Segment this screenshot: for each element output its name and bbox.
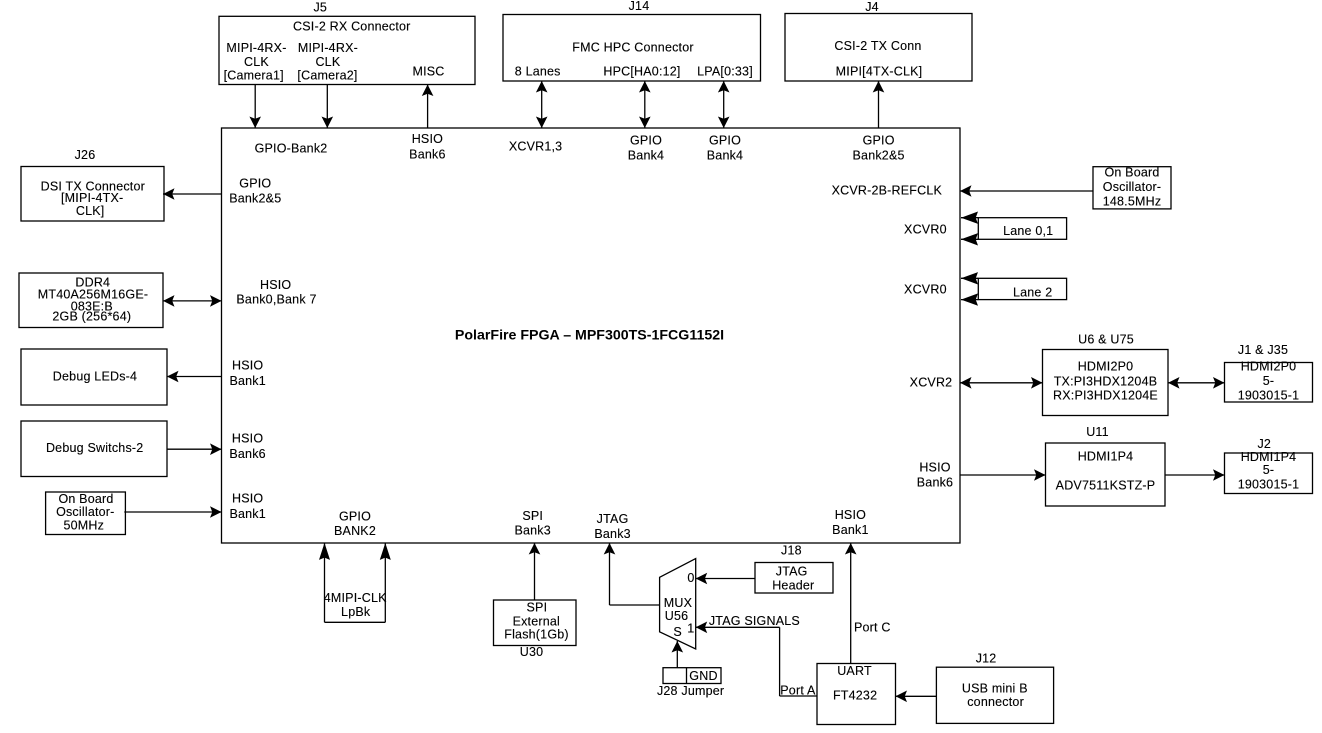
node Lane 0,1 box [978, 218, 1066, 240]
svg-text:Bank0,Bank 7: Bank0,Bank 7 [236, 293, 316, 307]
svg-text:Header: Header [772, 579, 814, 593]
svg-text:Oscillator-: Oscillator- [1103, 180, 1161, 194]
FPGA pin label JTAG Bank3 [594, 512, 630, 541]
svg-text:8 Lanes: 8 Lanes [515, 65, 561, 79]
svg-text:HSIO: HSIO [232, 492, 263, 506]
FPGA pin label HSIO Bank1 (LEDs) [229, 359, 265, 388]
wire FPGA GPIO Bank2&5 to J4 (up arrow) [873, 81, 885, 128]
wire Lane 0,1 upper to FPGA XCVR0 (left arrow) [961, 212, 978, 224]
svg-text:FT4232: FT4232 [833, 688, 877, 702]
Debug Switchs-2 box text [46, 441, 144, 455]
wire Lane 2 lower to FPGA XCVR0 (left arrow) [961, 293, 978, 305]
svg-text:XCVR0: XCVR0 [904, 223, 947, 237]
wire FPGA to J5 MISC (up arrow) [422, 85, 434, 129]
svg-text:Bank4: Bank4 [628, 149, 664, 163]
oscillator 50MHz box text [56, 492, 114, 533]
FPGA pin label HSIO Bank1 (osc) [229, 492, 265, 521]
UART box text [833, 664, 877, 703]
svg-text:Bank6: Bank6 [229, 447, 265, 461]
connector J12 reference label [976, 652, 997, 666]
component U30 reference label [520, 645, 544, 659]
svg-text:HDMI2P0: HDMI2P0 [1078, 360, 1134, 374]
U30 box text [504, 600, 569, 641]
connector J5 CSI-2 RX Connector box [219, 16, 475, 84]
svg-text:BANK2: BANK2 [334, 524, 376, 538]
FPGA pin label XCVR0 (lane 2) [904, 283, 947, 297]
jumper J28 reference label [657, 684, 724, 698]
J14 pin label LPA[0:33] [697, 65, 753, 79]
svg-text:[MIPI-4TX-: [MIPI-4TX- [61, 191, 123, 205]
svg-text:U11: U11 [1086, 425, 1109, 439]
svg-text:50MHz: 50MHz [64, 519, 105, 533]
svg-text:HSIO: HSIO [919, 461, 950, 475]
svg-text:U6 & U75: U6 & U75 [1078, 333, 1134, 347]
J14 box title text [572, 41, 694, 55]
FPGA pin label GPIO Bank2&5 (left) [229, 177, 281, 206]
svg-text:ADV7511KSTZ-P: ADV7511KSTZ-P [1056, 479, 1156, 493]
svg-text:On Board: On Board [1104, 166, 1159, 180]
J5 pin label MISC [412, 64, 444, 78]
svg-text:GPIO: GPIO [630, 134, 662, 148]
svg-text:J18: J18 [781, 544, 802, 558]
FPGA U-main block outline PolarFire [222, 128, 961, 543]
U56 select pin label S [673, 625, 682, 639]
Lane 0,1 box text [1003, 224, 1053, 238]
svg-text:U56: U56 [665, 609, 689, 623]
net label JTAG SIGNALS [709, 614, 800, 628]
wire FPGA to J26 (left arrow) [163, 188, 222, 200]
connector J18 JTAG Header box [755, 563, 833, 594]
connector J26 DSI TX Connector box [21, 167, 164, 222]
wire oscillator 148.5MHz to FPGA (left arrow) [960, 185, 1093, 197]
svg-text:JTAG: JTAG [776, 565, 808, 579]
wire oscillator 50MHz to FPGA (right arrow) [124, 506, 221, 518]
svg-text:Lane 2: Lane 2 [1013, 285, 1052, 299]
net label Port C [854, 621, 891, 635]
connector J12 USB mini B box [936, 667, 1053, 723]
J18 box text [772, 565, 814, 593]
svg-text:Bank2&5: Bank2&5 [853, 149, 905, 163]
svg-text:Debug LEDs-4: Debug LEDs-4 [53, 370, 137, 384]
svg-text:PolarFire FPGA – MPF300TS-1FCG: PolarFire FPGA – MPF300TS-1FCG1152I [455, 328, 724, 344]
svg-text:148.5MHz: 148.5MHz [1103, 195, 1162, 209]
connector J14 reference label [629, 0, 650, 13]
svg-text:0: 0 [687, 571, 694, 585]
connector J14 FMC HPC Connector box [503, 15, 761, 82]
U6/U75 box text [1053, 360, 1158, 403]
connector J2 HDMI1P4 box [1225, 453, 1313, 494]
J4 pin label MIPI[4TX-CLK] [836, 65, 923, 79]
component Debug Switchs-2 box [21, 421, 167, 477]
FPGA pin label GPIO-Bank2 [255, 142, 328, 156]
svg-text:USB mini B: USB mini B [962, 681, 1028, 695]
svg-text:LpBk: LpBk [341, 605, 371, 619]
FPGA pin label HSIO Bank6 (right) [917, 461, 953, 490]
FPGA pin label GPIO Bank2&5 (top right) [853, 134, 905, 163]
FPGA pin label HSIO Bank1 (bottom right) [832, 508, 868, 537]
component U11 reference label [1086, 425, 1109, 439]
svg-text:GPIO: GPIO [339, 510, 371, 524]
wire Lane 2 upper to FPGA XCVR0 (left arrow) [961, 272, 978, 284]
svg-text:On Board: On Board [58, 492, 113, 506]
node Lane 2 box [978, 278, 1066, 299]
svg-text:GND: GND [689, 669, 717, 683]
svg-text:S: S [673, 625, 682, 639]
connector J2 reference label [1257, 437, 1271, 451]
svg-text:HDMI2P0: HDMI2P0 [1241, 360, 1297, 374]
svg-text:J14: J14 [629, 0, 650, 13]
FPGA pin label SPI Bank3 [514, 509, 550, 538]
svg-text:UART: UART [837, 664, 872, 678]
svg-text:Bank4: Bank4 [707, 149, 743, 163]
FPGA pin label HSIO Bank6 (switches) [229, 432, 265, 461]
svg-text:XCVR0: XCVR0 [904, 283, 947, 297]
wire Debug Switchs to FPGA (right arrow) [167, 443, 222, 455]
svg-text:XCVR-2B-REFCLK: XCVR-2B-REFCLK [832, 184, 943, 198]
wire U56 MUX output to FPGA JTAG Bank3 (up arrow) [604, 543, 660, 605]
component U30 SPI External Flash box [494, 600, 577, 646]
wire J14 LPA to FPGA GPIO Bank4 (double arrow) [718, 81, 730, 128]
wire HDMI2P0 to J1/J35 (double arrow) [1168, 377, 1225, 389]
svg-text:XCVR2: XCVR2 [910, 375, 953, 389]
svg-text:Debug Switchs-2: Debug Switchs-2 [46, 441, 144, 455]
FPGA pin label XCVR2 [910, 375, 953, 389]
FPGA pin label GPIO BANK2 (bottom) [334, 510, 376, 539]
svg-text:GPIO: GPIO [239, 177, 271, 191]
svg-text:SPI: SPI [522, 509, 543, 523]
U56 input 1 pin label [687, 622, 694, 636]
oscillator 148.5MHz box [1093, 167, 1171, 209]
svg-text:XCVR1,3: XCVR1,3 [509, 140, 563, 154]
component UART FT4232 box [817, 664, 896, 725]
svg-text:RX:PI3HDX1204E: RX:PI3HDX1204E [1053, 389, 1158, 403]
svg-text:JTAG: JTAG [597, 512, 629, 526]
svg-text:5-: 5- [1263, 374, 1275, 388]
svg-text:Bank1: Bank1 [229, 507, 265, 521]
svg-text:Oscillator-: Oscillator- [56, 505, 114, 519]
J5 pin label MIPI-4RX-CLK [Camera1] [224, 41, 287, 82]
component U11 HDMI1P4 box [1046, 443, 1166, 506]
svg-text:MIPI-4RX-: MIPI-4RX- [298, 41, 358, 55]
svg-text:Bank3: Bank3 [594, 527, 630, 541]
svg-text:HDMI1P4: HDMI1P4 [1078, 450, 1134, 464]
4MIPI-CLK LpBk box text [324, 591, 387, 619]
connector J26 reference label [75, 148, 96, 162]
U56 input 0 pin label [687, 571, 694, 585]
jumper J28 two-cell box [663, 668, 721, 684]
net label Port A [780, 684, 816, 698]
svg-text:External: External [513, 614, 560, 628]
FPGA title label [455, 328, 724, 344]
FPGA pin label XCVR0 (lane 0,1) [904, 223, 947, 237]
svg-text:[Camera2]: [Camera2] [297, 68, 357, 82]
component U6 & U75 reference label [1078, 333, 1134, 347]
svg-text:1903015-1: 1903015-1 [1238, 388, 1300, 402]
svg-text:5-: 5- [1263, 463, 1275, 477]
oscillator 50MHz box [46, 492, 126, 535]
connector J1 & J35 reference label [1238, 343, 1288, 357]
svg-text:CLK: CLK [315, 55, 340, 69]
connector J5 reference label [313, 0, 327, 14]
connector J4 CSI-2 TX Conn box [785, 14, 972, 82]
wire JTAG SIGNALS from UART Port A to MUX input 1 (left arrow) [696, 622, 817, 697]
svg-text:GPIO: GPIO [709, 134, 741, 148]
svg-text:Port C: Port C [854, 621, 891, 635]
svg-text:J28 Jumper: J28 Jumper [657, 684, 724, 698]
svg-text:J1 & J35: J1 & J35 [1238, 343, 1288, 357]
svg-text:2GB (256*64): 2GB (256*64) [52, 309, 131, 323]
svg-text:MIPI[4TX-CLK]: MIPI[4TX-CLK] [836, 65, 923, 79]
wire HDMI1P4 to J2 (right arrow) [1165, 469, 1225, 481]
J14 pin label HPC[HA0:12] [603, 65, 680, 79]
svg-text:Bank3: Bank3 [514, 524, 550, 538]
wire J5 Camera2 to FPGA (down arrow) [322, 85, 334, 129]
svg-text:CLK: CLK [244, 55, 269, 69]
wire 4MIPI-CLK left edge to FPGA (up arrow) [319, 543, 330, 622]
svg-text:Lane 0,1: Lane 0,1 [1003, 224, 1053, 238]
svg-text:1: 1 [687, 622, 694, 636]
svg-text:J4: J4 [865, 0, 879, 14]
wire 4MIPI-CLK right edge to FPGA (up arrow) [380, 543, 391, 622]
svg-text:SPI: SPI [527, 600, 548, 614]
wire USB mini B to UART (left arrow) [896, 691, 937, 703]
svg-text:J26: J26 [75, 148, 96, 162]
svg-text:[Camera1]: [Camera1] [224, 68, 284, 82]
svg-text:Bank1: Bank1 [832, 523, 868, 537]
svg-text:Bank6: Bank6 [917, 476, 953, 490]
svg-text:TX:PI3HDX1204B: TX:PI3HDX1204B [1054, 375, 1158, 389]
svg-text:Bank2&5: Bank2&5 [229, 192, 281, 206]
wire J28 jumper to MUX select S (up arrow) [672, 641, 684, 668]
wire FPGA HSIO Bank6 to HDMI1P4 (right arrow) [960, 469, 1046, 481]
svg-text:MIPI-4RX-: MIPI-4RX- [226, 41, 286, 55]
component Debug LEDs-4 box [21, 349, 167, 405]
wire UART Port C to FPGA HSIO Bank1 (up arrow) [845, 543, 857, 664]
memory DDR4 box [19, 273, 163, 328]
J12 box text [962, 681, 1028, 709]
svg-text:Flash(1Gb): Flash(1Gb) [504, 628, 569, 642]
svg-text:GPIO: GPIO [863, 134, 895, 148]
svg-text:4MIPI-CLK: 4MIPI-CLK [324, 591, 387, 605]
svg-text:HPC[HA0:12]: HPC[HA0:12] [603, 65, 680, 79]
J1/J35 box text [1238, 360, 1300, 403]
svg-text:HDMI1P4: HDMI1P4 [1241, 450, 1297, 464]
wire DDR4 to FPGA (double arrow) [163, 295, 222, 307]
wire JTAG Header to MUX input 0 (left arrow) [696, 573, 755, 585]
svg-text:CSI-2 RX Connector: CSI-2 RX Connector [293, 20, 411, 34]
FPGA pin label GPIO Bank4 (LPA) [707, 134, 743, 163]
J2 box text [1238, 450, 1300, 492]
U11 box text [1056, 450, 1156, 493]
svg-text:1903015-1: 1903015-1 [1238, 478, 1300, 492]
wire FPGA to Debug LEDs (left arrow) [167, 371, 222, 383]
svg-text:CLK]: CLK] [76, 204, 105, 218]
U56 body text MUX U56 [664, 596, 693, 623]
svg-text:LPA[0:33]: LPA[0:33] [697, 65, 753, 79]
svg-text:J5: J5 [313, 0, 327, 14]
FPGA pin label XCVR-2B-REFCLK [832, 184, 943, 198]
J5 pin label MIPI-4RX-CLK [Camera2] [297, 41, 358, 82]
connector J1/J35 HDMI2P0 box [1225, 363, 1313, 403]
wire Lane 0,1 lower to FPGA XCVR0 (left arrow) [961, 233, 978, 245]
Debug LEDs-4 box text [53, 370, 137, 384]
component U6/U75 HDMI2P0 box [1043, 350, 1169, 416]
svg-text:HSIO: HSIO [412, 132, 443, 146]
J14 pin label 8 Lanes [515, 65, 561, 79]
connector J4 reference label [865, 0, 879, 14]
oscillator 148.5MHz box text [1103, 166, 1162, 209]
wire J5 Camera1 to FPGA (down arrow) [249, 85, 261, 129]
svg-text:HSIO: HSIO [835, 508, 866, 522]
multiplexer U56 MUX trapezoid [660, 559, 696, 649]
svg-text:JTAG SIGNALS: JTAG SIGNALS [709, 614, 800, 628]
svg-text:J12: J12 [976, 652, 997, 666]
svg-text:HSIO: HSIO [260, 278, 291, 292]
svg-text:CSI-2 TX Conn: CSI-2 TX Conn [834, 39, 921, 53]
node 4MIPI-CLK LpBk open-top box [325, 621, 386, 623]
svg-text:HSIO: HSIO [232, 432, 263, 446]
svg-text:Bank1: Bank1 [229, 374, 265, 388]
svg-text:HSIO: HSIO [232, 359, 263, 373]
wire FPGA XCVR2 to HDMI2P0 (double arrow) [960, 377, 1043, 389]
J5 box title text [293, 20, 411, 34]
svg-text:GPIO-Bank2: GPIO-Bank2 [255, 142, 328, 156]
svg-text:connector: connector [967, 695, 1024, 709]
svg-text:Bank6: Bank6 [409, 147, 445, 161]
J4 box title text [834, 39, 921, 53]
connector J18 reference label [781, 544, 802, 558]
FPGA pin label XCVR1,3 [509, 140, 563, 154]
FPGA pin label HSIO Bank6 (top) [409, 132, 445, 161]
FPGA pin label HSIO Bank0,Bank 7 [236, 278, 316, 307]
jumper J28 GND cell text [689, 669, 717, 683]
J26 box text DSI TX Connector [MIPI-4TX-CLK] [41, 180, 145, 219]
wire J14 HPC to FPGA GPIO Bank4 (double arrow) [639, 81, 651, 128]
svg-text:MISC: MISC [412, 64, 444, 78]
wire SPI flash to FPGA SPI Bank3 (up arrow) [529, 543, 541, 600]
DDR4 box text [38, 276, 148, 324]
svg-text:Port A: Port A [780, 684, 816, 698]
wire J14 8-Lanes to FPGA XCVR1,3 (double arrow) [536, 81, 548, 128]
svg-text:FMC HPC Connector: FMC HPC Connector [572, 41, 694, 55]
FPGA pin label GPIO Bank4 (HPC) [628, 134, 664, 163]
Lane 2 box text [1013, 285, 1052, 299]
svg-text:U30: U30 [520, 645, 544, 659]
svg-text:MUX: MUX [664, 596, 693, 610]
